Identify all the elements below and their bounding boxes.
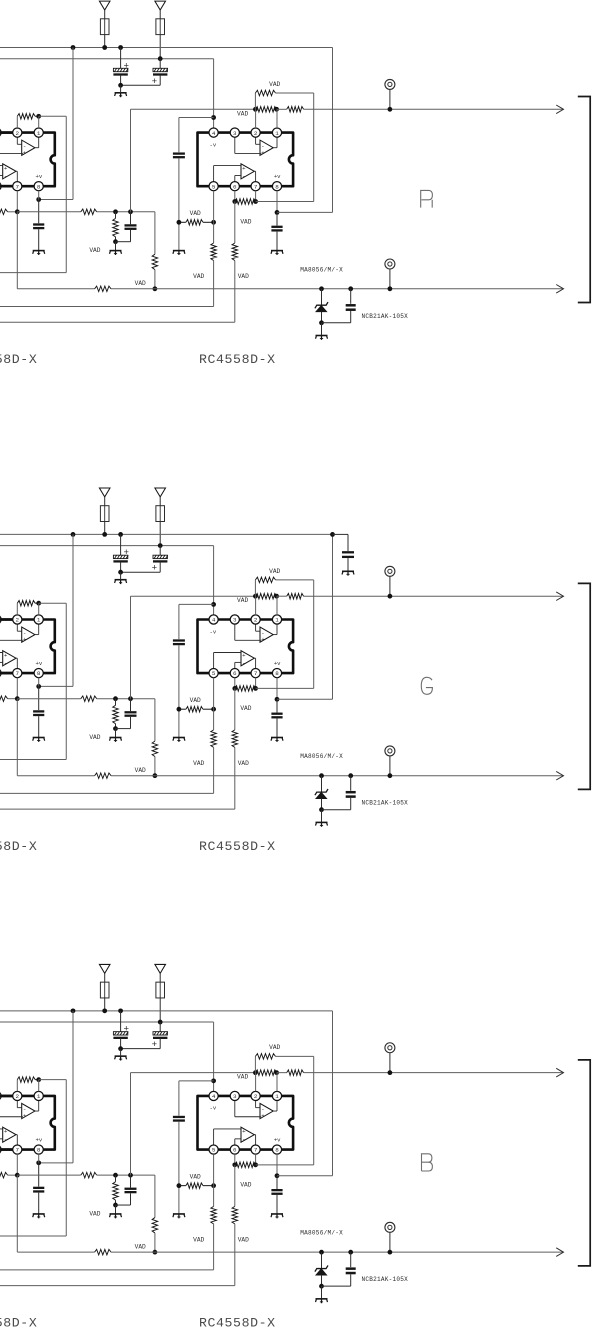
wire pin5 to B+: [213, 1129, 215, 1145]
wire pin6 stem: [234, 191, 236, 202]
electrolytic capacitor C1: [120, 1011, 122, 1032]
svg-text:VAD: VAD: [240, 218, 251, 225]
wire pin2 to A-: [16, 137, 18, 144]
ground: [115, 1056, 127, 1060]
test point TP2: [385, 259, 395, 269]
svg-text:7: 7: [254, 183, 258, 190]
op-amp A triangle: [22, 1103, 35, 1118]
svg-text:+: +: [4, 165, 8, 172]
pin 4: [209, 615, 218, 624]
resistor at left edge: [0, 209, 8, 215]
pin 2: [13, 1091, 22, 1100]
op-amp U1 (RC4558 left, clipped): [0, 615, 55, 678]
svg-text:4: 4: [212, 130, 216, 137]
bus return pin6: [0, 808, 235, 810]
svg-text:+: +: [242, 165, 246, 172]
resistor to output bus: [152, 1218, 158, 1233]
pin 8: [34, 669, 43, 678]
svg-text:+: +: [124, 1024, 130, 1035]
resistor feedback U2A: [253, 594, 258, 599]
wire pin2 to A-: [255, 137, 257, 144]
svg-text:-: -: [4, 172, 7, 179]
ground: [271, 738, 283, 742]
svg-text:VAD: VAD: [190, 210, 201, 217]
svg-text:VAD: VAD: [240, 1182, 251, 1189]
wire U1 pin7 column: [16, 191, 18, 212]
capacitor U2 supply decoupling: [276, 1176, 278, 1189]
pin 8: [272, 182, 281, 191]
ground: [115, 93, 127, 97]
bus2 to pin4: [0, 1021, 214, 1023]
svg-text:1: 1: [37, 1093, 41, 1100]
svg-text:8: 8: [37, 183, 41, 190]
wire pin7 stem: [255, 191, 257, 202]
resistor output series: [277, 595, 287, 597]
wire B out to pin7: [254, 170, 255, 172]
svg-text:RC4558D-X: RC4558D-X: [0, 839, 37, 854]
wire feedback riser: [313, 1056, 315, 1165]
op-amp IC body RC4558: [198, 133, 294, 187]
pin 8: [34, 182, 43, 191]
capacitor extra (G): [330, 532, 335, 537]
test point TP2: [385, 1222, 395, 1232]
svg-text:8: 8: [275, 670, 279, 677]
svg-text:-: -: [4, 659, 7, 666]
pin 1: [34, 1091, 43, 1100]
svg-text:5: 5: [212, 183, 216, 190]
resistor VAD bias: [186, 706, 203, 712]
fuse/bead: [159, 19, 161, 35]
pin 6: [0, 182, 1, 191]
svg-text:2: 2: [16, 617, 20, 624]
connector bracket: [578, 583, 590, 789]
connector bracket: [578, 97, 590, 303]
resistor VAD upper: [254, 1056, 256, 1072]
resistor VAD upper: [254, 580, 256, 596]
ground: [110, 1214, 122, 1218]
svg-text:+: +: [242, 652, 246, 659]
svg-text:VAD: VAD: [238, 1236, 249, 1243]
resistor bias pin6: [232, 243, 238, 261]
wire feedback riser: [313, 93, 315, 202]
pin 8: [34, 1145, 43, 1154]
pin 7: [251, 182, 260, 191]
wire pin8 supply: [276, 191, 278, 213]
output arrow: [556, 592, 563, 601]
pin 8: [272, 1145, 281, 1154]
wire pin6 stem: [234, 678, 236, 689]
wire feedback route left: [39, 602, 67, 604]
pin 5: [209, 182, 218, 191]
svg-text:7: 7: [16, 670, 20, 677]
svg-text:NCB21AK-105X: NCB21AK-105X: [362, 1276, 409, 1283]
bus return pin5: [0, 1269, 214, 1271]
op-amp U1 (RC4558 left, clipped): [0, 128, 55, 191]
wire video output: [304, 1072, 563, 1074]
pin 2: [13, 128, 22, 137]
connector/antenna symbol: [99, 488, 110, 497]
wire A out to pin1: [35, 147, 39, 149]
output arrow: [556, 285, 563, 294]
pin 7: [13, 182, 22, 191]
wire: [159, 973, 161, 982]
wire input to U1 pin7: [0, 185, 13, 188]
svg-text:VAD: VAD: [135, 767, 146, 774]
capacitor U2 supply decoupling: [276, 699, 278, 712]
svg-text:NCB21AK-105X: NCB21AK-105X: [362, 800, 409, 807]
wire lower output net: [17, 775, 94, 777]
op-amp IC body RC4558: [198, 620, 294, 674]
pin 6: [230, 182, 239, 191]
ground: [33, 251, 45, 255]
wire input to U1 pin2: [0, 618, 13, 621]
op-amp IC body RC4558: [0, 620, 55, 674]
wire +V riser to U1 pin8: [72, 534, 74, 686]
svg-text:NCB21AK-105X: NCB21AK-105X: [362, 313, 409, 320]
supply bus1: [0, 47, 333, 49]
svg-text:VAD: VAD: [238, 760, 249, 767]
pin 6: [0, 1145, 1, 1154]
pin 6: [230, 669, 239, 678]
svg-text:8: 8: [37, 670, 41, 677]
op-amp A triangle: [22, 627, 35, 642]
connector/antenna symbol: [99, 1, 110, 10]
capacitor U1 supply decoupling: [38, 200, 40, 224]
wire B out to pin7: [16, 170, 17, 172]
resistor U1 feedback: [16, 116, 18, 128]
resistor to ground: [115, 699, 117, 706]
svg-text:5: 5: [212, 1147, 216, 1154]
wire pin3 to A+: [234, 137, 236, 153]
wire pin6 to B-: [234, 1139, 236, 1145]
supply bus1: [0, 533, 333, 535]
wire pin2 to A-: [16, 1101, 18, 1108]
ground: [110, 738, 122, 742]
test point TP1: [385, 1043, 395, 1053]
wire to riser: [256, 201, 314, 203]
pin 7: [13, 1145, 22, 1154]
ground: [115, 580, 127, 584]
op-amp B triangle: [241, 1127, 254, 1142]
op-amp B triangle: [241, 651, 254, 666]
ground: [321, 810, 323, 823]
wire video output: [304, 595, 563, 597]
svg-text:+: +: [261, 149, 265, 156]
test point TP2: [385, 746, 395, 756]
output arrow: [556, 1068, 563, 1077]
wire pin7 stem: [255, 678, 257, 689]
pin 4: [209, 128, 218, 137]
svg-text:7: 7: [254, 1147, 258, 1154]
resistor bias pin6: [232, 730, 238, 748]
connector/antenna symbol: [99, 964, 110, 973]
svg-text:-: -: [242, 172, 245, 179]
svg-text:-v: -v: [210, 1105, 217, 1112]
svg-text:VAD: VAD: [89, 734, 100, 741]
resistor output series: [277, 1072, 287, 1074]
pin 3: [230, 615, 239, 624]
resistor series lower: [95, 286, 111, 292]
capacitor series: [173, 639, 185, 641]
resistor bias pin6: [232, 1206, 238, 1224]
capacitor series: [173, 1116, 185, 1118]
pin 1: [34, 128, 43, 137]
wire pin5 column: [213, 1154, 215, 1206]
electrolytic capacitor C2: [159, 59, 161, 69]
ground: [33, 1214, 45, 1218]
wire cap commons: [121, 84, 161, 86]
ground: [173, 251, 185, 255]
wire pin5 column: [213, 678, 215, 730]
fuse/bead: [104, 19, 106, 35]
svg-text:+: +: [23, 636, 27, 643]
pin 3: [230, 128, 239, 137]
svg-text:VAD: VAD: [269, 568, 280, 575]
pin 1: [272, 128, 281, 137]
pin 1: [34, 615, 43, 624]
svg-text:7: 7: [254, 670, 258, 677]
svg-text:MA8056/M/-X: MA8056/M/-X: [300, 753, 343, 760]
svg-text:3: 3: [233, 617, 237, 624]
ground: [321, 323, 323, 336]
op-amp IC body RC4558: [0, 133, 55, 187]
wire pin5 to B+: [213, 653, 215, 669]
resistor at left edge: [0, 696, 8, 702]
svg-text:VAD: VAD: [135, 1244, 146, 1251]
wire A out to pin1: [35, 634, 39, 636]
svg-text:-v: -v: [210, 141, 217, 148]
svg-text:6: 6: [233, 183, 237, 190]
pin 3: [0, 615, 1, 624]
wire pin3 to A+: [234, 624, 236, 640]
svg-text:4: 4: [212, 1093, 216, 1100]
op-amp B triangle: [3, 651, 16, 666]
svg-text:VAD: VAD: [240, 705, 251, 712]
pin 7: [13, 669, 22, 678]
test point TP1: [385, 566, 395, 576]
wire A out to pin1: [273, 634, 277, 636]
resistor to output bus: [152, 254, 158, 269]
junction dots on buses: [71, 1008, 76, 1013]
bus return pin5: [0, 306, 214, 308]
ground: [321, 1286, 323, 1299]
ground: [271, 1214, 283, 1218]
svg-text:8: 8: [275, 1147, 279, 1154]
channel letter G: [421, 677, 432, 694]
wire pin5 to B+: [213, 166, 215, 182]
channel letter B: [422, 1154, 433, 1171]
op-amp A triangle: [260, 627, 273, 642]
pin 7: [251, 1145, 260, 1154]
svg-text:1: 1: [275, 617, 279, 624]
pin 6: [230, 1145, 239, 1154]
op-amp B triangle: [241, 164, 254, 179]
wire pin4 branch: [211, 1078, 216, 1083]
svg-text:+v: +v: [274, 1137, 281, 1144]
svg-text:-: -: [242, 1136, 245, 1143]
wire B out to pin7: [16, 1134, 17, 1136]
svg-text:+: +: [124, 60, 130, 71]
wire pin1 riser: [276, 109, 278, 128]
svg-text:+: +: [261, 1113, 265, 1120]
pin 7: [251, 669, 260, 678]
wire pin4 branch: [211, 602, 216, 607]
op-amp A triangle: [260, 140, 273, 155]
wire H12 corner riser: [154, 1175, 156, 1217]
wire pin6 column: [234, 1165, 236, 1207]
capacitor U1 supply decoupling: [38, 686, 40, 710]
resistor bias pin5: [211, 1206, 217, 1224]
wire cap commons: [121, 1048, 161, 1050]
supply bus1: [0, 1010, 333, 1012]
zener diode MA8056: [319, 773, 324, 778]
wire input to U1 pin2: [0, 1095, 13, 1098]
ground: [173, 1214, 185, 1218]
wire pin8 supply: [276, 1154, 278, 1176]
op-amp A triangle: [260, 1103, 273, 1118]
wire pin5 column: [213, 191, 215, 243]
svg-text:+v: +v: [36, 1137, 43, 1144]
pin 1: [272, 1091, 281, 1100]
svg-text:+v: +v: [274, 173, 281, 180]
resistor U2B feedback: [235, 686, 256, 692]
wire: [104, 497, 106, 506]
wire net H12: [17, 698, 81, 700]
svg-text:1: 1: [275, 1093, 279, 1100]
junction dots on buses: [71, 45, 76, 50]
wire pin8 supply: [276, 678, 278, 700]
wire H12 corner riser: [154, 699, 156, 741]
wire pin2 to A-: [16, 624, 18, 631]
electrolytic capacitor C2: [159, 1022, 161, 1032]
bus return pin6: [0, 1285, 235, 1287]
svg-text:+v: +v: [36, 173, 43, 180]
pin 2: [251, 1091, 260, 1100]
resistor to output bus: [152, 741, 158, 756]
resistor bias pin5: [211, 730, 217, 748]
electrolytic capacitor C1: [120, 48, 122, 69]
svg-text:RC4558D-X: RC4558D-X: [199, 839, 276, 854]
wire pin1 riser: [276, 596, 278, 615]
bus return pin6: [0, 321, 235, 323]
svg-text:RC4558D-X: RC4558D-X: [199, 352, 276, 367]
wire pin6 stem: [234, 1154, 236, 1165]
capacitor to ground: [130, 1175, 132, 1187]
svg-text:2: 2: [16, 1093, 20, 1100]
wire A out to pin1: [273, 1110, 277, 1112]
svg-text:+: +: [124, 547, 130, 558]
wire input to U1 pin2: [0, 131, 13, 134]
fuse/bead: [159, 982, 161, 998]
resistor output series: [277, 108, 287, 110]
connector bracket: [578, 1060, 590, 1266]
wire fuse2 to bus2: [159, 998, 161, 1022]
svg-text:1: 1: [37, 617, 41, 624]
wire: [159, 10, 161, 19]
wire U1 pin7 column: [16, 1154, 18, 1175]
connector/antenna symbol: [155, 964, 166, 973]
op-amp U2 RC4558: [198, 1091, 294, 1154]
svg-text:+: +: [242, 1128, 246, 1135]
svg-text:VAD: VAD: [237, 597, 248, 604]
pin 6: [0, 669, 1, 678]
op-amp IC body RC4558: [198, 1096, 294, 1150]
capacitor U2 supply decoupling: [276, 212, 278, 225]
resistor U2B feedback: [235, 1162, 256, 1168]
wire fuse2 to bus2: [159, 35, 161, 59]
op-amp IC body RC4558: [0, 1096, 55, 1150]
wire: [104, 10, 106, 19]
bus2 to pin4: [0, 545, 214, 547]
svg-text:1: 1: [37, 130, 41, 137]
wire fuse2 to bus2: [159, 522, 161, 546]
svg-text:+: +: [4, 1128, 8, 1135]
svg-text:MA8056/M/-X: MA8056/M/-X: [300, 1230, 343, 1237]
electrolytic capacitor C1: [120, 534, 122, 555]
svg-text:6: 6: [233, 670, 237, 677]
output arrow: [556, 1248, 563, 1257]
pin 3: [0, 1091, 1, 1100]
wire pin7 stem: [255, 1154, 257, 1165]
svg-text:VAD: VAD: [89, 247, 100, 254]
wire B out to pin7: [16, 657, 17, 659]
wire feedback riser: [313, 580, 315, 689]
wire lower output net: [17, 288, 94, 290]
svg-text:VAD: VAD: [135, 280, 146, 287]
wire net H12: [17, 1174, 81, 1176]
resistor to ground: [115, 212, 117, 219]
op-amp B triangle: [3, 1127, 16, 1142]
svg-text:2: 2: [254, 1093, 258, 1100]
connector/antenna symbol: [155, 488, 166, 497]
R channel section: [0, 1, 590, 367]
wire A out to pin1: [273, 147, 277, 149]
ground: [33, 738, 45, 742]
capacitor series: [173, 152, 185, 154]
svg-text:7: 7: [16, 183, 20, 190]
fuse/bead: [104, 506, 106, 522]
op-amp A triangle: [22, 140, 35, 155]
resistor VAD upper: [254, 93, 256, 109]
svg-text:VAD: VAD: [237, 1074, 248, 1081]
bus2 to pin4: [0, 58, 214, 60]
svg-text:+: +: [23, 149, 27, 156]
fuse/bead: [104, 982, 106, 998]
svg-text:-: -: [242, 659, 245, 666]
wire pin6 to B-: [234, 662, 236, 668]
svg-text:+: +: [261, 636, 265, 643]
wire lower output net: [17, 1251, 94, 1253]
resistor to ground: [115, 1175, 117, 1182]
zener diode MA8056: [319, 286, 324, 291]
svg-text:VAD: VAD: [193, 1236, 204, 1243]
capacitor to ground: [130, 212, 132, 224]
resistor series lower: [95, 1249, 111, 1255]
wire pin2 riser: [255, 109, 257, 128]
svg-text:VAD: VAD: [190, 697, 201, 704]
pin 3: [0, 128, 1, 137]
svg-text:-v: -v: [210, 628, 217, 635]
resistor series lower: [95, 773, 111, 779]
wire pin2 to A-: [255, 624, 257, 631]
wire pin2 to A-: [255, 1101, 257, 1108]
wire feedback route left: [39, 1079, 67, 1081]
capacitor to ground: [130, 699, 132, 711]
svg-text:VAD: VAD: [190, 1174, 201, 1181]
pin 2: [13, 615, 22, 624]
pin 2: [251, 128, 260, 137]
wire net H12: [17, 211, 81, 213]
